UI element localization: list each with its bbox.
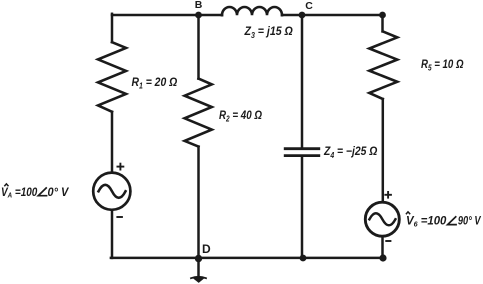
svg-text:D: D (202, 242, 211, 256)
svg-text:R1 = 20 Ω: R1 = 20 Ω (132, 75, 178, 91)
svg-text:B: B (195, 0, 203, 11)
svg-text:R5 = 10 Ω: R5 = 10 Ω (421, 57, 464, 73)
svg-text:90° V: 90° V (458, 214, 481, 228)
svg-text:C: C (305, 0, 313, 12)
svg-text:VA =100: VA =100 (1, 185, 38, 200)
svg-text:V6 =100: V6 =100 (406, 214, 447, 229)
svg-text:R2 = 40 Ω: R2 = 40 Ω (219, 108, 263, 124)
svg-text:0° V: 0° V (48, 185, 70, 199)
svg-text:Z3 = j15 Ω: Z3 = j15 Ω (244, 24, 294, 40)
svg-text:Z4 = −j25 Ω: Z4 = −j25 Ω (323, 144, 378, 160)
